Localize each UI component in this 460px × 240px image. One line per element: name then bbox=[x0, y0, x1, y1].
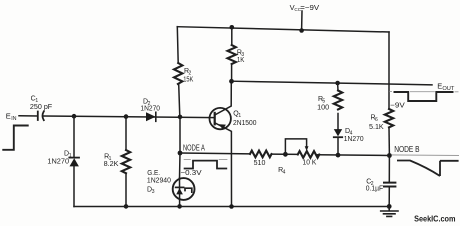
tunnel diode D3 circle bbox=[173, 178, 195, 200]
wire R4 to D4 node bbox=[316, 154, 389, 157]
node C1-D1 junction bbox=[72, 114, 77, 119]
wire R5 top bbox=[337, 83, 339, 91]
wire collector line to E_OUT bbox=[232, 81, 433, 85]
wire R6 bottom bbox=[388, 127, 390, 155]
svg-text:250 pF: 250 pF bbox=[30, 104, 52, 111]
svg-text:15K: 15K bbox=[183, 76, 193, 83]
node R5 top junction bbox=[335, 81, 340, 86]
resistor R4 10K bbox=[298, 151, 320, 158]
resistor R1 bbox=[122, 150, 130, 173]
svg-text:1: 1 bbox=[69, 153, 72, 159]
node ground junction bbox=[387, 204, 392, 209]
diode D4 bbox=[334, 129, 342, 136]
svg-text:1N2940: 1N2940 bbox=[147, 178, 171, 185]
resistor 510 bbox=[250, 151, 272, 158]
svg-text:1N270: 1N270 bbox=[344, 136, 364, 143]
node D3 ground junction bbox=[177, 204, 182, 209]
svg-text:4: 4 bbox=[283, 169, 286, 175]
svg-text:−0.3V: −0.3V bbox=[180, 170, 202, 177]
svg-text:510: 510 bbox=[254, 160, 266, 167]
wire right drop to R6 bbox=[388, 32, 390, 109]
svg-text:IN: IN bbox=[11, 116, 16, 122]
ground rail bbox=[74, 206, 389, 208]
svg-text:NODE A: NODE A bbox=[183, 143, 205, 152]
wire R1 bottom bbox=[125, 173, 127, 206]
transistor Q1 circle bbox=[210, 108, 231, 129]
wire D1 bottom bbox=[73, 166, 75, 206]
diode D3 symbol bbox=[176, 186, 184, 188]
svg-text:1N270: 1N270 bbox=[47, 158, 69, 165]
svg-text:6: 6 bbox=[375, 117, 378, 123]
wire node A line bbox=[180, 152, 250, 155]
svg-text:3: 3 bbox=[152, 189, 155, 195]
svg-text:10 K: 10 K bbox=[303, 159, 317, 166]
top rail Vcc bbox=[177, 27, 389, 32]
svg-text:1N270: 1N270 bbox=[140, 106, 160, 113]
waveform E_IN bbox=[2, 126, 28, 150]
svg-text:NODE B: NODE B bbox=[394, 145, 419, 154]
waveform NODE A bbox=[184, 161, 228, 169]
svg-text:1: 1 bbox=[238, 113, 241, 119]
resistor R5 bbox=[334, 91, 342, 110]
Q1 collector bbox=[215, 81, 232, 115]
node emitter ground junction bbox=[229, 204, 234, 209]
svg-text:=−9V: =−9V bbox=[300, 3, 319, 12]
wire R1 branch bbox=[125, 117, 127, 150]
svg-text:SeekIC.com: SeekIC.com bbox=[414, 214, 455, 223]
wire R2 bottom bbox=[179, 84, 180, 117]
diode D1 bbox=[69, 157, 79, 159]
wire node A to D3 bbox=[179, 153, 182, 178]
capacitor C2 bbox=[384, 183, 395, 187]
diode D2 bbox=[146, 112, 156, 121]
wire R5 to D4 bbox=[337, 114, 339, 130]
wire R3 bottom bbox=[231, 64, 233, 81]
resistor R6 bbox=[385, 109, 393, 127]
waveform E_OUT bbox=[394, 92, 454, 101]
svg-text:100: 100 bbox=[317, 105, 329, 112]
capacitor C1 bbox=[38, 111, 44, 120]
svg-text:−9V: −9V bbox=[390, 100, 405, 109]
wire node B to C2 bbox=[388, 156, 390, 183]
resistor R3 bbox=[228, 45, 236, 64]
svg-text:OUT: OUT bbox=[442, 86, 455, 92]
node R2-D2 junction bbox=[178, 115, 183, 120]
svg-text:8.2K: 8.2K bbox=[104, 161, 119, 168]
R4 wiper arrow bbox=[305, 146, 309, 151]
wire node A branch bbox=[179, 117, 181, 153]
D3 bracket bbox=[185, 188, 192, 192]
node B thin baseline bbox=[392, 154, 459, 157]
potentiometer R4 wiper wire bbox=[285, 139, 306, 154]
svg-text:0.1µF: 0.1µF bbox=[366, 186, 384, 193]
svg-text:G.E.: G.E. bbox=[147, 170, 160, 177]
wire through D3 bbox=[179, 178, 181, 206]
wire D4 bottom bbox=[337, 138, 339, 156]
svg-text:1K: 1K bbox=[237, 57, 245, 64]
wire E_IN bbox=[19, 115, 38, 117]
Q1 emitter arrow bbox=[219, 124, 226, 129]
svg-text:E: E bbox=[6, 111, 11, 120]
wire 510 to pot bbox=[272, 153, 298, 155]
waveform E_OUT reference dashes bbox=[389, 91, 458, 93]
svg-text:2N1500: 2N1500 bbox=[233, 120, 257, 127]
node D4 node line junction bbox=[336, 153, 341, 158]
wire R2 top bbox=[176, 27, 179, 63]
svg-text:5.1K: 5.1K bbox=[369, 124, 384, 131]
node R3 top junction bbox=[230, 25, 235, 30]
node R1 ground junction bbox=[124, 204, 129, 209]
resistor R2 bbox=[174, 63, 182, 84]
waveform NODE A reference dashes bbox=[184, 159, 228, 161]
wire R3 top bbox=[231, 27, 233, 45]
node R1 junction bbox=[124, 114, 129, 119]
wire C2 to ground bbox=[388, 187, 390, 206]
waveform NODE B bbox=[397, 161, 459, 177]
node Vcc junction bbox=[299, 28, 304, 33]
node pot left junction bbox=[283, 152, 288, 157]
wire Vcc tick bbox=[301, 11, 303, 31]
node collector junction bbox=[229, 79, 234, 84]
ground bbox=[381, 206, 398, 216]
wire middle line C1 to Q1 base bbox=[44, 116, 215, 118]
wire D1 branch bbox=[73, 116, 75, 157]
node NODE B junction bbox=[387, 153, 392, 158]
node NODE A junction bbox=[178, 151, 183, 156]
Q1 base bar bbox=[214, 113, 216, 124]
Q1 emitter bbox=[215, 123, 232, 207]
